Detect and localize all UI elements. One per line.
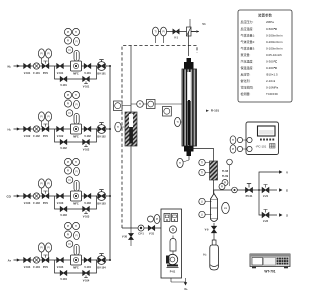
svg-text:PI: PI bbox=[67, 161, 70, 164]
svg-text:V-104: V-104 bbox=[24, 266, 31, 269]
valve drain (black, below junction) bbox=[122, 228, 133, 246]
instrument PI-103b bbox=[45, 179, 51, 194]
wire: feed line 2 main pipe bbox=[20, 128, 110, 130]
node junction line 2 to header bbox=[109, 128, 111, 130]
wire: to collection cylinder bbox=[213, 233, 215, 240]
wire: column outlet to condenser bbox=[189, 149, 214, 162]
svg-text:0-100ml/min: 0-100ml/min bbox=[266, 46, 283, 50]
svg-text:背压范围:: 背压范围: bbox=[241, 85, 254, 90]
svg-text:PV-01: PV-01 bbox=[246, 195, 253, 198]
valve PCV-103 bbox=[42, 191, 49, 205]
ball valve BV-102 bbox=[97, 123, 106, 139]
instrument box column left bbox=[163, 107, 172, 117]
instrument PI gas line bbox=[219, 184, 225, 191]
node junction line 3 to header bbox=[109, 195, 111, 197]
pump box indicator a bbox=[164, 214, 170, 222]
svg-text:WT-701: WT-701 bbox=[264, 270, 275, 274]
instrument PI-102 bbox=[38, 112, 44, 127]
valve V-101b bbox=[57, 64, 64, 76]
instrument box on feed bbox=[147, 100, 156, 109]
wire: condenser to separator bbox=[213, 180, 215, 194]
wire: feed line 2 bypass bbox=[55, 129, 97, 142]
valve V-104a bbox=[24, 258, 31, 270]
wire: drain below pump box bbox=[171, 278, 188, 291]
svg-text:PI: PI bbox=[162, 31, 165, 34]
svg-text:V-31: V-31 bbox=[149, 233, 155, 236]
svg-text:MFC: MFC bbox=[73, 266, 79, 269]
svg-text:气体流量2:: 气体流量2: bbox=[241, 39, 256, 44]
wire: gas line to outlets bbox=[232, 189, 259, 191]
svg-text:PI: PI bbox=[67, 225, 70, 228]
svg-text:催化剂:: 催化剂: bbox=[241, 78, 251, 83]
svg-text:TI: TI bbox=[75, 31, 77, 34]
instrument cluster PI/TI line 1 bbox=[64, 28, 79, 53]
valve handle bypass V-104d bbox=[84, 275, 88, 277]
svg-text:CO: CO bbox=[7, 194, 12, 198]
back pressure regulator BPR-101 bbox=[246, 184, 254, 199]
wire: outlet branch up bbox=[259, 172, 277, 190]
valve bypass V-102c bbox=[60, 140, 67, 150]
svg-text:PI: PI bbox=[47, 247, 50, 250]
svg-text:V-102: V-102 bbox=[83, 149, 90, 152]
svg-text:PI: PI bbox=[47, 53, 50, 56]
wire: vaporizer outlet down bbox=[130, 146, 132, 228]
ball valve BV-103 bbox=[97, 190, 106, 206]
svg-text:V-22: V-22 bbox=[263, 220, 269, 223]
instrument TI column left bbox=[175, 117, 183, 126]
svg-text:V-101: V-101 bbox=[60, 84, 67, 87]
wire: outlet branch middle bbox=[259, 189, 277, 191]
ball valve BV-101 bbox=[97, 60, 106, 76]
valve PCV-101 bbox=[42, 61, 49, 75]
wire: vertical gas header bbox=[109, 66, 111, 260]
svg-text:V-104: V-104 bbox=[60, 278, 67, 281]
instrument TI condenser b bbox=[199, 169, 210, 175]
svg-text:2MPa: 2MPa bbox=[266, 20, 274, 24]
collection cylinder neck bbox=[212, 240, 216, 245]
svg-text:V-21: V-21 bbox=[263, 195, 269, 198]
svg-text:0-500℃: 0-500℃ bbox=[266, 27, 278, 31]
instrument PI-104b bbox=[45, 243, 51, 258]
svg-text:V-103: V-103 bbox=[83, 216, 90, 219]
instrument circle before BPR bbox=[232, 187, 238, 193]
svg-text:0-200ml/min: 0-200ml/min bbox=[266, 40, 283, 44]
svg-text:PI: PI bbox=[47, 116, 50, 119]
valve V-101f bbox=[84, 64, 91, 76]
svg-text:V-101: V-101 bbox=[24, 72, 31, 75]
node junction line 1 to header bbox=[109, 65, 111, 67]
condenser E-102 (hatched) bbox=[210, 161, 218, 180]
svg-text:装置参数: 装置参数 bbox=[258, 13, 272, 18]
svg-text:FI: FI bbox=[75, 171, 77, 174]
svg-text:PI: PI bbox=[40, 247, 43, 250]
svg-text:BV-102: BV-102 bbox=[97, 135, 106, 138]
instrument TI top b bbox=[160, 27, 166, 43]
svg-text:PI: PI bbox=[221, 186, 224, 189]
valve V-104f bbox=[84, 258, 91, 270]
svg-text:FI: FI bbox=[68, 49, 70, 52]
svg-text:TI: TI bbox=[154, 31, 156, 34]
svg-text:V-30: V-30 bbox=[122, 236, 128, 239]
svg-text:PI: PI bbox=[47, 183, 50, 186]
svg-text:V1: V1 bbox=[202, 22, 206, 26]
svg-text:V-102: V-102 bbox=[24, 135, 31, 138]
svg-text:PI: PI bbox=[40, 53, 43, 56]
instrument cluster PI/TI line 4 bbox=[64, 222, 79, 247]
svg-text:反应温度:: 反应温度: bbox=[241, 26, 254, 31]
svg-text:BV-104: BV-104 bbox=[97, 266, 106, 269]
regulator cap on MFC line 4 bbox=[74, 245, 79, 256]
valve V-9 (black) bbox=[205, 226, 217, 233]
wire: separator liquid outlet bbox=[213, 223, 215, 226]
svg-text:PCV: PCV bbox=[43, 135, 48, 138]
valve bypass V-101d bbox=[83, 77, 90, 89]
instrument LI separator a bbox=[199, 198, 212, 204]
instrument TI column bottom bbox=[177, 158, 189, 167]
wire: feed line 4 main pipe bbox=[20, 259, 110, 261]
wire: feed line 4 bypass bbox=[55, 260, 97, 273]
svg-text:FI: FI bbox=[68, 112, 70, 115]
svg-text:PI: PI bbox=[40, 183, 43, 186]
svg-text:TI: TI bbox=[179, 162, 181, 165]
svg-text:PI: PI bbox=[67, 103, 70, 106]
svg-text:泵流量:: 泵流量: bbox=[241, 52, 251, 57]
svg-text:0-300℃: 0-300℃ bbox=[266, 60, 278, 64]
wire: feed line 3 main pipe bbox=[20, 195, 110, 197]
burette bottle in pump box bbox=[170, 236, 176, 252]
ball valve BV-104 bbox=[97, 254, 106, 270]
svg-text:R-101: R-101 bbox=[211, 109, 220, 113]
valve bypass V-103c bbox=[60, 207, 67, 217]
pump enclosure box bbox=[161, 209, 182, 278]
valve handle bypass V-103d bbox=[84, 211, 88, 213]
svg-text:PI: PI bbox=[156, 218, 159, 221]
svg-text:V-103: V-103 bbox=[60, 214, 67, 217]
valve V-1 top bbox=[173, 29, 179, 39]
svg-text:TI: TI bbox=[75, 94, 77, 97]
valve on liquid line bbox=[148, 226, 154, 236]
svg-text:TI: TI bbox=[176, 121, 178, 124]
svg-text:F-102: F-102 bbox=[33, 135, 40, 138]
node feed inlet N₂ line 1 bbox=[8, 64, 12, 68]
filter F-102 bbox=[33, 126, 40, 138]
wire: feed line 2 inlet arrow bbox=[14, 127, 21, 130]
instrument pair to PC a bbox=[230, 136, 252, 144]
node arrow GC outlet bbox=[279, 188, 288, 192]
wire: tick above check valve bbox=[189, 19, 191, 27]
ball check on liquid line bbox=[138, 225, 144, 236]
valve bypass V-104d bbox=[83, 271, 90, 283]
node junction outlet manifold bbox=[258, 189, 260, 191]
svg-text:V-103: V-103 bbox=[57, 202, 64, 205]
regulator cap on MFC line 2 bbox=[74, 114, 79, 125]
node feed inlet H₂ line 2 bbox=[8, 127, 12, 131]
svg-text:LI: LI bbox=[201, 214, 203, 217]
mass flow controller MFC-102 bbox=[71, 124, 82, 138]
svg-text:CV-1: CV-1 bbox=[138, 233, 144, 236]
wire: vaporizer to column line bbox=[131, 103, 182, 105]
valve outlet middle bbox=[262, 185, 269, 199]
svg-text:LG: LG bbox=[224, 207, 227, 210]
check valve top bbox=[187, 27, 192, 36]
svg-text:PCV: PCV bbox=[43, 266, 48, 269]
svg-text:TI: TI bbox=[232, 139, 234, 142]
svg-text:F-104: F-104 bbox=[33, 266, 40, 269]
svg-text:BV-101: BV-101 bbox=[97, 72, 106, 75]
node feed inlet Ar line 4 bbox=[8, 258, 12, 262]
svg-text:V-102: V-102 bbox=[57, 135, 64, 138]
instrument LI separator b bbox=[199, 211, 212, 217]
svg-text:BV-103: BV-103 bbox=[97, 202, 106, 205]
svg-text:PI: PI bbox=[67, 234, 70, 237]
instrument PI-104 bbox=[38, 243, 44, 258]
valve V-102f bbox=[84, 127, 91, 139]
valve V-103f bbox=[84, 194, 91, 206]
svg-text:V-9: V-9 bbox=[205, 229, 209, 232]
valve handle bypass V-101d bbox=[84, 81, 88, 83]
instrument TI vaporizer side bbox=[115, 122, 125, 132]
instrument circle above gas line bbox=[227, 159, 233, 186]
wire: feed line 3 inlet arrow bbox=[14, 194, 21, 197]
regulator cap on MFC line 1 bbox=[74, 51, 79, 62]
instrument PI-103 bbox=[38, 179, 44, 194]
boundary: heated box (dashed) bbox=[122, 46, 197, 229]
svg-text:Φ10×1.5: Φ10×1.5 bbox=[266, 73, 278, 77]
instrument ellipse left of pump box bbox=[148, 215, 160, 224]
svg-text:2-10ml: 2-10ml bbox=[266, 79, 276, 83]
valve V-102a bbox=[24, 127, 31, 139]
vaporizer E-101 (hatched) bbox=[125, 112, 137, 146]
instrument cluster PI/TI line 2 bbox=[64, 91, 79, 116]
reactor column R-101 body bbox=[182, 69, 197, 146]
svg-text:PI: PI bbox=[67, 170, 70, 173]
wire: feed line 1 main pipe bbox=[20, 65, 110, 67]
svg-text:PCV: PCV bbox=[43, 202, 48, 205]
separator vessel V-201 bbox=[211, 194, 218, 222]
wire: separator gas outlet bbox=[214, 190, 232, 194]
svg-text:PI: PI bbox=[40, 116, 43, 119]
svg-text:V-103: V-103 bbox=[24, 202, 31, 205]
svg-text:PCV: PCV bbox=[43, 72, 48, 75]
svg-text:0.05-10ml/h: 0.05-10ml/h bbox=[266, 53, 282, 57]
svg-text:F-101: F-101 bbox=[33, 72, 40, 75]
valve V-104b bbox=[57, 258, 64, 270]
svg-text:0-200ml/min: 0-200ml/min bbox=[266, 33, 283, 37]
instrument PI-101b bbox=[45, 49, 51, 64]
node labels TI condenser bbox=[222, 169, 229, 178]
svg-text:TI: TI bbox=[201, 172, 203, 175]
instrument cluster PI/TI line 3 bbox=[64, 158, 79, 183]
valve handle bypass V-102d bbox=[84, 144, 88, 146]
node arrow sample outlet bbox=[279, 213, 288, 217]
svg-text:TI: TI bbox=[201, 162, 203, 165]
svg-text:G: G bbox=[286, 189, 288, 193]
svg-text:F-103: F-103 bbox=[33, 202, 40, 205]
node arrow vent outlet bbox=[277, 170, 288, 174]
valve bypass V-101c bbox=[60, 77, 67, 87]
svg-text:S: S bbox=[286, 214, 288, 218]
svg-text:V: V bbox=[286, 171, 288, 175]
svg-text:TCD/FID: TCD/FID bbox=[266, 92, 279, 96]
legend table: design parameters bbox=[238, 10, 292, 102]
node label R-101 bbox=[206, 109, 219, 113]
svg-text:V-101: V-101 bbox=[57, 72, 64, 75]
svg-text:V-102: V-102 bbox=[60, 147, 67, 150]
svg-text:V-1: V-1 bbox=[174, 37, 178, 40]
wire: liquid feed line bbox=[122, 227, 161, 229]
instrument pair to PC b bbox=[230, 145, 252, 153]
pump box gauge bbox=[169, 226, 176, 233]
svg-text:V-101: V-101 bbox=[84, 72, 91, 75]
svg-text:FI: FI bbox=[75, 235, 77, 238]
svg-text:FI: FI bbox=[68, 179, 70, 182]
svg-text:TI: TI bbox=[139, 103, 141, 106]
valve outlet bottom bbox=[262, 210, 269, 224]
svg-text:MFC: MFC bbox=[73, 202, 79, 205]
instrument PI-101 bbox=[38, 49, 44, 64]
reactor column R-101 bottom cap bbox=[184, 146, 194, 156]
svg-text:TI: TI bbox=[75, 161, 77, 164]
svg-text:PI: PI bbox=[67, 94, 70, 97]
svg-text:TI: TI bbox=[75, 225, 77, 228]
instrument box TI vaporizer bbox=[114, 101, 132, 111]
svg-text:V-104: V-104 bbox=[84, 266, 91, 269]
valve bypass V-102d bbox=[83, 140, 90, 152]
instrument circle right of condenser bbox=[222, 180, 228, 186]
filter F-103 bbox=[33, 193, 40, 205]
wire: feed line 1 inlet arrow bbox=[14, 64, 21, 67]
svg-text:V-104: V-104 bbox=[57, 266, 64, 269]
controller PC-101 bbox=[246, 122, 279, 155]
wire: feed line 4 inlet arrow bbox=[14, 258, 21, 261]
wire: line into column top bbox=[188, 32, 190, 57]
mass flow controller MFC-103 bbox=[71, 191, 82, 205]
svg-text:保温温度:: 保温温度: bbox=[241, 65, 254, 70]
node junction line 4 to header bbox=[109, 259, 111, 261]
svg-text:FI: FI bbox=[75, 41, 77, 44]
mass flow controller MFC-104 bbox=[71, 255, 82, 269]
svg-text:V-104: V-104 bbox=[83, 280, 90, 283]
wire: top vent arrow bbox=[191, 22, 206, 33]
valve PCV-104 bbox=[42, 255, 49, 269]
gas chromatograph WT-701 bbox=[250, 254, 290, 274]
svg-text:FI: FI bbox=[75, 104, 77, 107]
valve V-103a bbox=[24, 194, 31, 206]
svg-text:0-300℃: 0-300℃ bbox=[266, 66, 278, 70]
svg-text:0-10MPa: 0-10MPa bbox=[266, 86, 279, 90]
regulator cap on MFC line 3 bbox=[74, 181, 79, 192]
svg-text:PI: PI bbox=[67, 40, 70, 43]
valve V-102b bbox=[57, 127, 64, 139]
instrument TI condenser a bbox=[199, 159, 210, 165]
instrument TI top a bbox=[152, 27, 158, 43]
svg-text:气体流量3:: 气体流量3: bbox=[241, 45, 256, 50]
svg-text:TI: TI bbox=[117, 126, 119, 129]
svg-text:反应压力:: 反应压力: bbox=[241, 19, 254, 24]
mass flow controller MFC-101 bbox=[71, 61, 82, 75]
wire: outlet branch down bbox=[259, 190, 277, 215]
wire: feed line 1 bypass bbox=[55, 66, 97, 79]
svg-text:P-01: P-01 bbox=[170, 270, 176, 274]
feed pump P-101 bbox=[166, 251, 179, 274]
svg-text:反应管:: 反应管: bbox=[241, 72, 251, 77]
valve V-101a bbox=[24, 64, 31, 76]
svg-text:汽化温度:: 汽化温度: bbox=[241, 59, 254, 64]
valve bypass V-104c bbox=[60, 271, 67, 281]
instrument circle on feed bbox=[137, 101, 144, 108]
svg-text:气体流量1:: 气体流量1: bbox=[241, 32, 256, 37]
svg-text:PI: PI bbox=[232, 148, 235, 151]
svg-text:V-102: V-102 bbox=[84, 135, 91, 138]
svg-text:TI-08: TI-08 bbox=[222, 169, 229, 173]
svg-text:TI-09: TI-09 bbox=[222, 174, 229, 178]
valve PCV-102 bbox=[42, 124, 49, 138]
filter F-101 bbox=[33, 63, 40, 75]
svg-text:LI: LI bbox=[201, 201, 203, 204]
wire: vaporizer feed drop bbox=[130, 46, 132, 113]
svg-text:PI: PI bbox=[67, 31, 70, 34]
svg-text:V-101: V-101 bbox=[83, 86, 90, 89]
svg-text:-PC-101: -PC-101 bbox=[256, 145, 267, 149]
valve V-103b bbox=[57, 194, 64, 206]
pump box indicator b bbox=[172, 214, 178, 222]
instrument LG separator right bbox=[222, 202, 230, 213]
svg-text:MFC: MFC bbox=[73, 135, 79, 138]
svg-text:MFC: MFC bbox=[73, 72, 79, 75]
svg-text:检测器:: 检测器: bbox=[241, 91, 251, 96]
instrument PI-102b bbox=[45, 112, 51, 127]
reactor column R-101 top cap bbox=[184, 58, 194, 69]
wire: feed line 3 bypass bbox=[55, 196, 97, 209]
valve bypass V-103d bbox=[83, 207, 90, 219]
wire: reactor feed top line bbox=[152, 31, 196, 33]
svg-text:FI: FI bbox=[68, 243, 70, 246]
node feed inlet CO line 3 bbox=[7, 194, 12, 198]
filter F-104 bbox=[33, 257, 40, 269]
collection cylinder body bbox=[203, 245, 218, 270]
svg-text:V-103: V-103 bbox=[84, 202, 91, 205]
